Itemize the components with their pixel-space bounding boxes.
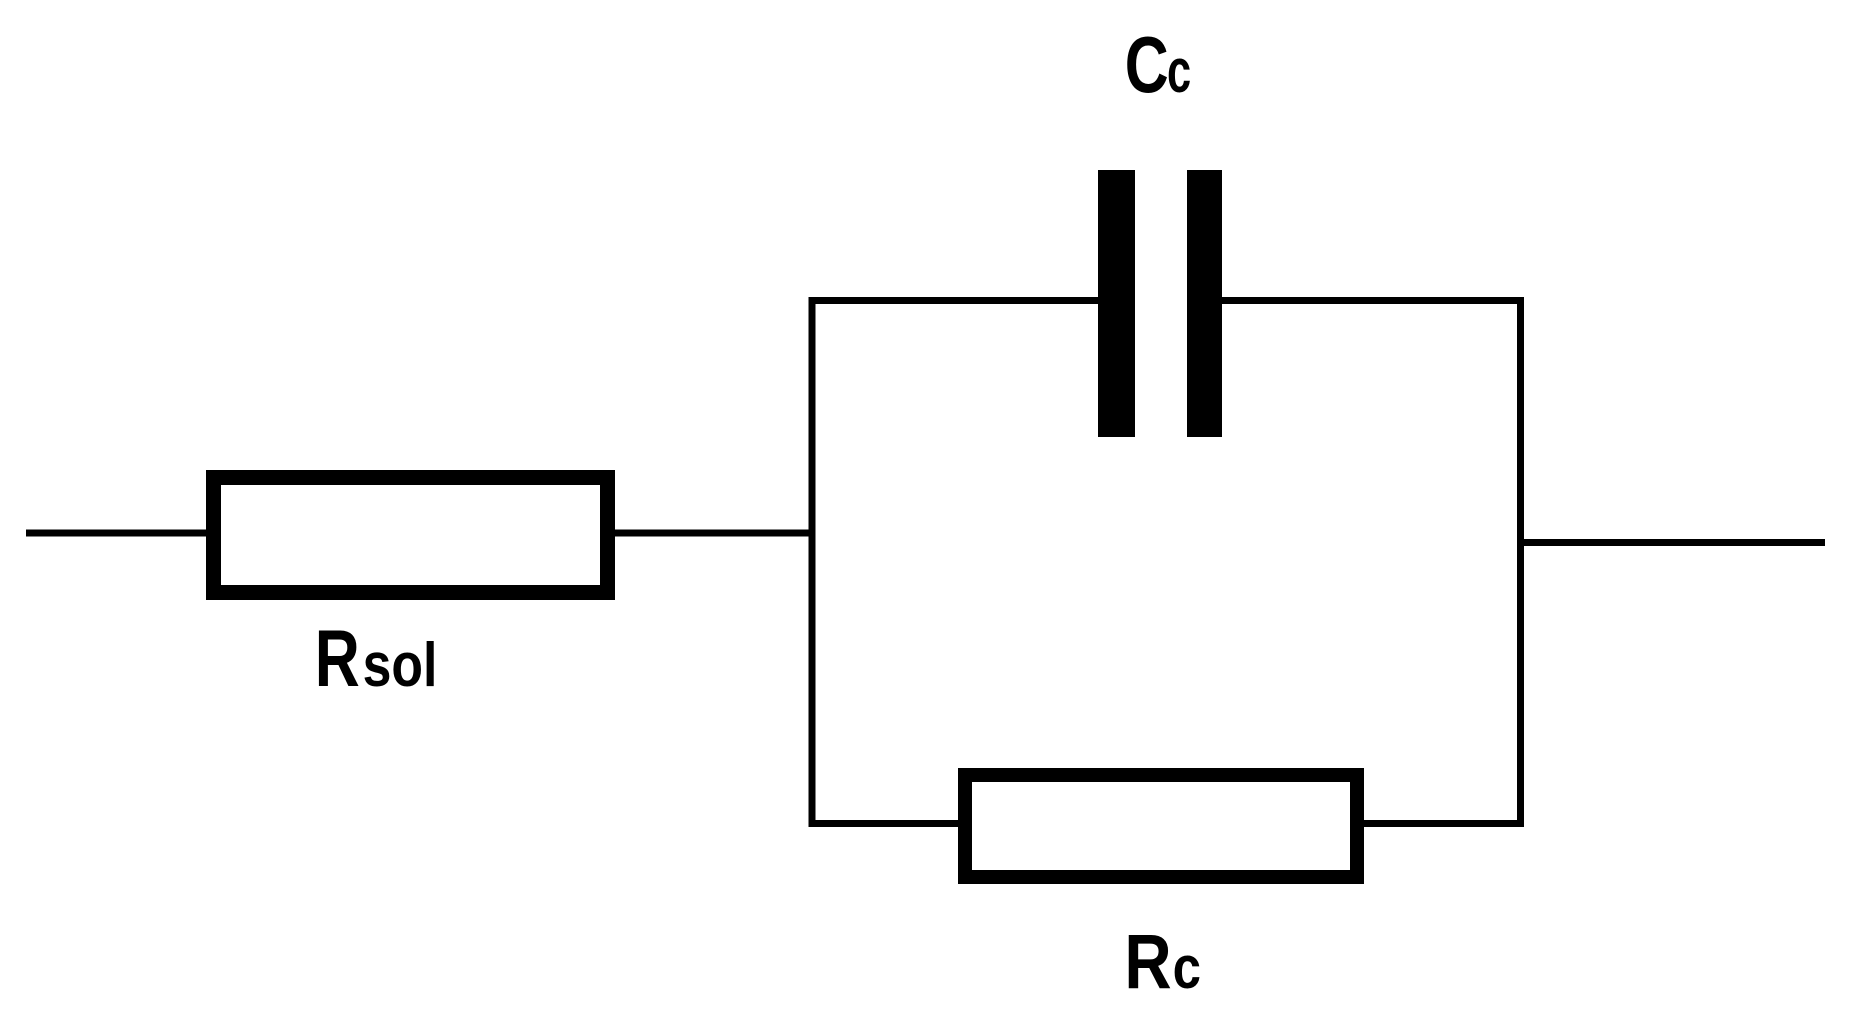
resistor Rsol xyxy=(206,470,615,600)
svg-text:sol: sol xyxy=(363,631,438,700)
svg-text:c: c xyxy=(1173,934,1201,1001)
wire box top right segment xyxy=(1220,297,1524,304)
wire box bottom left segment xyxy=(809,820,961,827)
resistor Rc xyxy=(958,768,1364,884)
wire box bottom right segment xyxy=(1362,820,1524,827)
label Rsol xyxy=(315,614,438,704)
label Cc xyxy=(1125,21,1191,110)
wire box right vertical xyxy=(1517,297,1524,827)
capacitor Cc xyxy=(1098,170,1222,437)
svg-text:R: R xyxy=(1124,919,1171,1005)
wire right output xyxy=(1520,539,1825,546)
label Rc xyxy=(1124,919,1201,1005)
svg-text:C: C xyxy=(1125,21,1169,110)
svg-text:c: c xyxy=(1167,38,1191,106)
svg-text:R: R xyxy=(315,614,360,704)
wire left input xyxy=(26,530,213,537)
wire box left vertical xyxy=(809,297,816,827)
wire resistor to node xyxy=(600,530,812,537)
wire box top left segment xyxy=(809,297,1100,304)
